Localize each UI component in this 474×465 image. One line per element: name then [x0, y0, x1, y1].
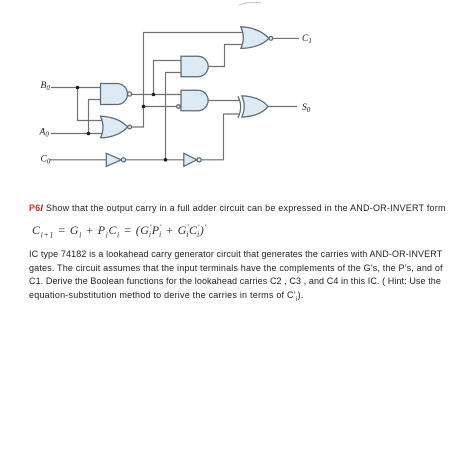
wire NOR output up to C1-NOR top input [132, 33, 243, 128]
inverter I1 on C0 [106, 153, 121, 166]
formula line [32, 223, 207, 239]
svg-text:S0: S0 [302, 103, 311, 114]
problem statement line 1 [29, 203, 446, 213]
wire C1 output [273, 37, 299, 39]
wire riser C0-inv to AND1 lower input [166, 73, 182, 160]
wire inverter1 output to inverter2 input [126, 159, 184, 161]
wire B0 input [51, 87, 101, 89]
wire riser NAND output to AND1 top input [154, 61, 182, 95]
wire A0 riser to NAND lower input [89, 100, 102, 134]
wire inverter2 output to XOR lower input [201, 114, 239, 160]
wire AND2 output to XOR top input [208, 100, 239, 102]
junction dot B0 [76, 86, 80, 90]
nor gate G2 (B0,A0) [101, 116, 128, 138]
wire A0 input [51, 133, 103, 135]
paragraph line 4 [29, 290, 304, 303]
wire NAND output to AND2 top input [132, 94, 182, 96]
inverter I2 [184, 153, 197, 166]
svg-text:B0: B0 [41, 81, 51, 92]
nor gate G5 output C1 [241, 27, 269, 49]
wire branch to AND2 inverted input [144, 106, 177, 108]
wire B0 branch down to NOR top input [78, 88, 104, 121]
and gate G3 [181, 56, 208, 76]
paragraph line 3 [29, 276, 441, 286]
svg-text:C1: C1 [302, 34, 312, 45]
wire AND1 output to C1-NOR lower input [208, 45, 242, 67]
junction dot NOR riser [142, 105, 146, 109]
junction dot NAND output [152, 93, 156, 97]
junction dot A0 [87, 132, 91, 136]
nand gate G1 (B0,A0) [101, 84, 128, 105]
svg-text:C0: C0 [41, 154, 51, 165]
paragraph line 2 [29, 263, 443, 273]
junction dot C0-inv line [164, 158, 168, 162]
paragraph line 1 [29, 249, 442, 259]
and gate G4 with inverted input [181, 90, 208, 111]
wire S0 output [268, 106, 297, 108]
xor gate G6 output S0 [242, 96, 268, 117]
wire C0 input [50, 159, 108, 161]
svg-text:A0: A0 [39, 127, 50, 138]
faint artifact arc top [239, 2, 261, 5]
